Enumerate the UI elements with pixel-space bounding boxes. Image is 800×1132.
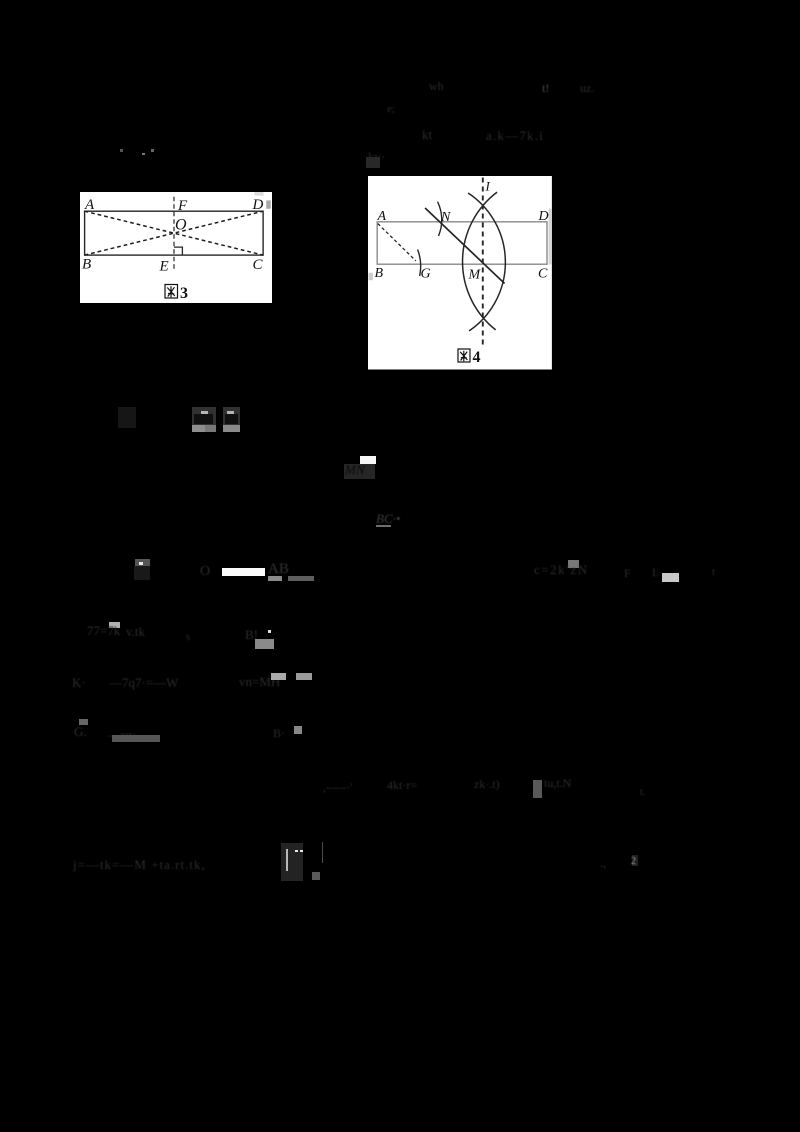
bracket glyph cluster <box>281 843 303 881</box>
slanted line through N and M <box>425 208 504 283</box>
svg-text:M: M <box>467 267 481 282</box>
svg-text:A: A <box>84 197 95 213</box>
dashed diagonal A to G <box>378 223 416 260</box>
diagonal BD dashed <box>85 211 263 255</box>
row y~560 <box>135 559 150 567</box>
rectangle ABCD <box>377 221 547 263</box>
svg-text:O: O <box>175 216 187 233</box>
light streak top right <box>255 192 264 196</box>
caption 图3 <box>165 284 177 297</box>
vertical dashed line FE <box>173 196 175 268</box>
svg-text:N: N <box>440 210 451 225</box>
faint dots top-left <box>120 149 123 152</box>
white underline bar <box>222 568 265 576</box>
svg-text:4: 4 <box>472 348 480 365</box>
svg-text:D: D <box>537 209 548 224</box>
big arc bulging left (center near C) <box>462 192 497 330</box>
svg-text:B: B <box>374 265 383 280</box>
light gray column right of rectangle <box>548 208 551 264</box>
faint remnant marks <box>429 79 444 94</box>
BC block <box>376 511 400 527</box>
svg-text:E: E <box>159 258 169 274</box>
diagonal AC dashed <box>85 211 263 255</box>
svg-text:D: D <box>252 197 264 213</box>
tick arc at N <box>437 201 441 235</box>
right angle mark at E <box>174 247 182 255</box>
row y~780 <box>323 780 353 795</box>
svg-text:F: F <box>177 198 188 214</box>
svg-text:C: C <box>253 257 264 273</box>
gray scan block left edge <box>368 272 372 279</box>
rectangle ABCD <box>85 211 263 255</box>
svg-text:A: A <box>376 209 386 224</box>
row y~720 <box>79 719 88 725</box>
svg-text:3: 3 <box>180 285 188 302</box>
svg-text:B: B <box>82 256 91 272</box>
figure panel 图4 <box>368 176 552 370</box>
caption 图4 <box>458 348 470 361</box>
row y~622 <box>109 622 120 628</box>
tick arc at G <box>417 249 420 275</box>
MN block with white highlight <box>360 456 376 464</box>
gray scan block near D <box>266 200 271 208</box>
highlighted caption blocks row y~407 <box>192 407 216 432</box>
svg-text:G: G <box>420 266 430 281</box>
svg-text:I: I <box>484 178 490 193</box>
vertical dashed line I-M <box>482 177 484 348</box>
figure panel 图3 <box>80 192 272 303</box>
svg-text:C: C <box>538 266 548 281</box>
row y~675 <box>72 675 86 691</box>
big arc bulging right (center near G) <box>468 193 505 331</box>
row y~858 <box>73 857 206 873</box>
